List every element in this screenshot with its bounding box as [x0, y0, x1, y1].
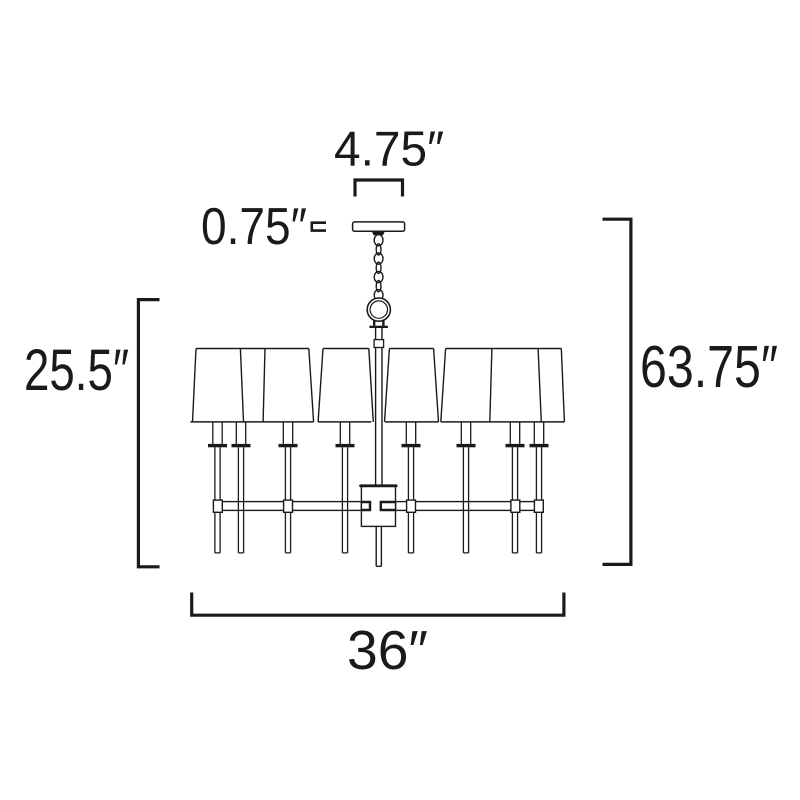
light 1 rod: [215, 447, 220, 553]
light 5 rod: [408, 447, 413, 553]
chain link 6: [376, 281, 381, 292]
svg-text:0.75″: 0.75″: [201, 197, 307, 255]
light 2 rod: [238, 447, 243, 553]
right arm bar: [396, 502, 543, 511]
svg-text:63.75″: 63.75″: [640, 334, 778, 400]
hanging ring outer: [367, 298, 390, 321]
light 7 cup: [506, 444, 525, 447]
left dimension bracket 25.5in: [138, 300, 159, 567]
shade 1 left edge: [193, 349, 197, 422]
light 3 rod: [285, 447, 290, 553]
shade 3 right edge: [369, 349, 374, 422]
chain link 3: [374, 253, 383, 264]
small dimension bracket 0.75in (canopy height): [312, 223, 326, 231]
chain link 5: [374, 271, 383, 282]
arm junction box light 1: [213, 500, 222, 512]
shade band top edge segments: [196, 348, 561, 350]
light 4 rod: [342, 447, 347, 553]
arm junction box light 8: [534, 500, 543, 512]
shade 4 right edge: [434, 349, 439, 422]
chain link 4: [376, 262, 381, 273]
light 1 cup: [208, 444, 227, 447]
shade band bottom edge segments: [190, 421, 564, 423]
hub left socket bracket: [361, 501, 371, 511]
svg-text:4.75″: 4.75″: [334, 122, 444, 177]
light 8 candle: [534, 422, 543, 444]
shade 5 right edge: [490, 349, 492, 422]
light 6 candle: [461, 422, 470, 444]
central hub top lip: [359, 484, 397, 487]
shade 4 left edge: [385, 349, 390, 422]
light 3 cup: [279, 444, 298, 447]
right dimension bracket 63.75in: [603, 219, 631, 564]
shade 5 left edge: [441, 349, 446, 422]
light 3 candle: [283, 422, 292, 444]
bottom dimension bracket 36in: [192, 593, 564, 616]
svg-text:36″: 36″: [347, 619, 428, 681]
light 4 cup: [336, 444, 355, 447]
light 5 cup: [402, 444, 421, 447]
shade 2 right edge: [309, 349, 314, 422]
light 8 rod: [536, 447, 541, 553]
shade 2 left edge: [263, 349, 265, 422]
light 4 candle: [340, 422, 349, 444]
arm junction box light 5: [407, 500, 416, 512]
central hub body: [361, 486, 395, 526]
column collar: [374, 340, 384, 348]
light 7 rod: [512, 447, 517, 553]
chain link 7: [374, 290, 383, 301]
light 1 candle: [213, 422, 222, 444]
light 2 candle: [236, 422, 245, 444]
svg-text:25.5″: 25.5″: [24, 338, 129, 403]
candles and cups and rods: [208, 422, 549, 553]
main column tube: [376, 348, 382, 487]
light 6 cup: [457, 444, 476, 447]
shade 1 right edge: [240, 349, 243, 422]
arm junction box light 7: [511, 500, 520, 512]
canopy stem nipple: [372, 232, 385, 236]
light 8 cup: [530, 444, 549, 447]
ceiling canopy: [353, 222, 405, 231]
shade 6 right edge: [538, 349, 541, 422]
light 2 cup: [232, 444, 251, 447]
hub right socket bracket: [380, 501, 396, 511]
chain link 2: [376, 244, 381, 255]
ring neck: [374, 320, 383, 326]
left arm bar: [214, 502, 362, 511]
light 7 candle: [510, 422, 519, 444]
chain link 1: [374, 235, 383, 246]
top dimension bracket 4.75in: [355, 180, 403, 197]
light 5 candle: [406, 422, 415, 444]
lower column finial: [376, 527, 381, 567]
shade 7 right edge: [561, 349, 564, 422]
arm junction box light 3: [284, 500, 293, 512]
ring neck flange: [369, 326, 388, 328]
light 6 rod: [463, 447, 468, 553]
shade 3 left edge: [318, 349, 323, 422]
hanging ring inner: [370, 301, 387, 318]
upper column tube: [376, 328, 382, 340]
